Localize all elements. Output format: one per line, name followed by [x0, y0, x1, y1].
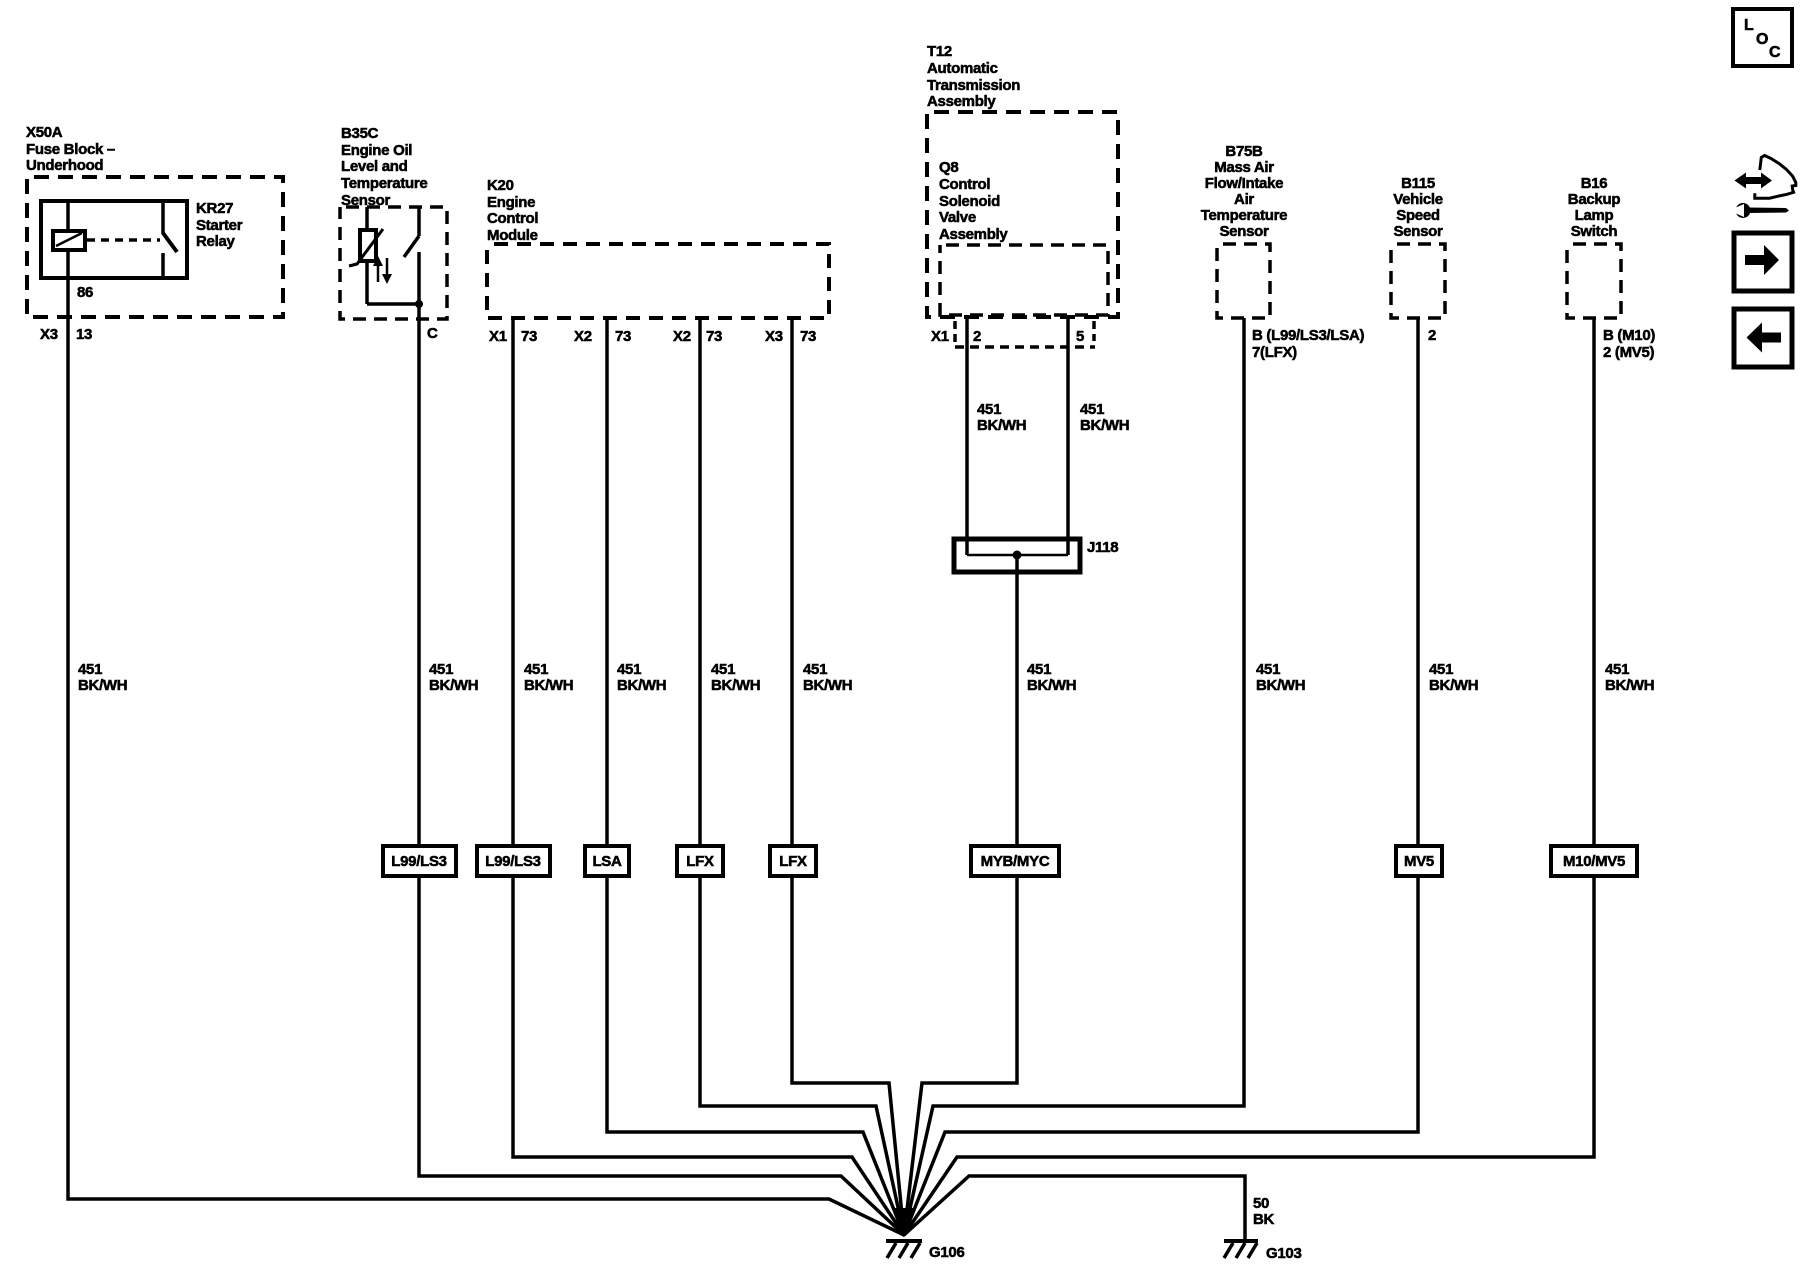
relay KR27 box	[41, 201, 187, 278]
option box MV5	[1396, 846, 1442, 876]
wire K20 X2-73 second 451 BK/WH to G106	[700, 318, 904, 1235]
svg-text:Speed: Speed	[1396, 207, 1440, 224]
svg-text:2: 2	[973, 328, 981, 345]
wire K20 X3-73 451 BK/WH to G106	[792, 318, 904, 1235]
svg-text:Assembly: Assembly	[927, 93, 996, 110]
svg-text:B (L99/LS3/LSA): B (L99/LS3/LSA)	[1252, 327, 1364, 344]
svg-text:B75B: B75B	[1225, 143, 1263, 160]
svg-text:73: 73	[521, 328, 537, 345]
svg-text:X2: X2	[574, 328, 592, 345]
ground G106	[886, 1241, 922, 1258]
pin X2 73	[574, 328, 631, 345]
svg-text:Engine: Engine	[487, 194, 535, 211]
label 451 BK/WH wire K20 X3	[803, 661, 852, 694]
svg-text:451: 451	[1429, 661, 1453, 678]
svg-text:Switch: Switch	[1571, 223, 1618, 240]
svg-text:2 (MV5): 2 (MV5)	[1603, 344, 1655, 361]
label 451 BK/WH wire B35C	[429, 661, 478, 694]
wire 50 BK G106 to G103	[904, 1176, 1245, 1240]
svg-text:X1: X1	[489, 328, 507, 345]
option box LFX second	[770, 846, 816, 876]
svg-text:Control: Control	[939, 176, 990, 193]
connector X50A Fuse Block label	[26, 124, 115, 174]
valve Q8 dashed box	[940, 245, 1108, 315]
relay KR27 coil wire	[66, 201, 70, 278]
svg-text:C: C	[1769, 44, 1781, 61]
icon tools wrench	[1729, 203, 1789, 218]
svg-text:LFX: LFX	[686, 853, 714, 870]
sensor B35C level arrows	[373, 256, 392, 284]
svg-text:451: 451	[1080, 401, 1104, 418]
svg-text:73: 73	[800, 328, 816, 345]
svg-text:BK: BK	[1253, 1211, 1275, 1228]
svg-text:Solenoid: Solenoid	[939, 193, 1000, 210]
svg-text:Control: Control	[487, 210, 538, 227]
relay KR27 switch	[163, 201, 177, 278]
icon LOC box	[1733, 9, 1792, 66]
svg-text:X3: X3	[765, 328, 783, 345]
svg-text:73: 73	[615, 328, 631, 345]
svg-text:G106: G106	[929, 1244, 965, 1261]
svg-text:BK/WH: BK/WH	[1429, 677, 1478, 694]
relay KR27 linkage	[87, 238, 160, 242]
wire J118 out 451 BK/WH to G106	[904, 555, 1017, 1235]
svg-text:Relay: Relay	[196, 233, 235, 250]
svg-text:Valve: Valve	[939, 209, 976, 226]
svg-text:M10/MV5: M10/MV5	[1563, 853, 1625, 870]
svg-text:BK/WH: BK/WH	[803, 677, 852, 694]
svg-text:451: 451	[1027, 661, 1051, 678]
label 451 BK/WH wire K20 X2	[617, 661, 666, 694]
svg-text:451: 451	[524, 661, 548, 678]
sensor B115 label	[1393, 175, 1443, 240]
svg-text:Temperature: Temperature	[1201, 207, 1287, 224]
svg-text:451: 451	[78, 661, 102, 678]
label 451 BK/WH wire K20 X1	[524, 661, 573, 694]
assembly T12 dashed box	[927, 112, 1118, 317]
svg-text:Sensor: Sensor	[1393, 223, 1443, 240]
label 451 BK/WH Q8 pin5	[1080, 401, 1129, 434]
svg-text:B35C: B35C	[341, 125, 379, 142]
svg-text:86: 86	[77, 284, 93, 301]
pin X3 13	[40, 326, 92, 343]
icon arrow right box	[1734, 233, 1792, 291]
label 451 BK/WH wire X50A	[78, 661, 127, 694]
svg-text:MYB/MYC: MYB/MYC	[981, 853, 1050, 870]
svg-text:451: 451	[1256, 661, 1280, 678]
wire B16 451 BK/WH to G106	[904, 318, 1594, 1235]
svg-text:5: 5	[1076, 328, 1084, 345]
svg-text:L99/LS3: L99/LS3	[391, 853, 446, 870]
icon tools double arrow	[1735, 173, 1773, 189]
sensor B75B label	[1201, 143, 1287, 240]
label 451 BK/WH wire J118	[1027, 661, 1076, 694]
switch B16 label	[1568, 175, 1621, 240]
svg-text:B (M10): B (M10)	[1603, 327, 1655, 344]
svg-text:BK/WH: BK/WH	[977, 417, 1026, 434]
assembly T12 label	[927, 43, 1020, 110]
label 451 BK/WH wire B75B	[1256, 661, 1305, 694]
option box MYB/MYC	[971, 846, 1059, 876]
svg-text:MV5: MV5	[1404, 853, 1434, 870]
svg-text:BK/WH: BK/WH	[1080, 417, 1129, 434]
svg-text:LFX: LFX	[779, 853, 807, 870]
node junction B35C pin C	[415, 300, 423, 308]
sensor B35C switch	[404, 207, 419, 257]
svg-text:KR27: KR27	[196, 200, 233, 217]
wire B35C 451 BK/WH to G106	[419, 252, 904, 1235]
label 451 BK/WH wire B16	[1605, 661, 1654, 694]
svg-text:451: 451	[803, 661, 827, 678]
svg-text:K20: K20	[487, 177, 514, 194]
pin X3 73	[765, 328, 816, 345]
svg-text:BK/WH: BK/WH	[524, 677, 573, 694]
svg-text:J118: J118	[1087, 539, 1118, 556]
wire X50A 451 BK/WH to G106	[68, 278, 904, 1235]
option box LFX first	[677, 846, 723, 876]
valve Q8 label	[939, 159, 1008, 243]
label 451 BK/WH Q8 pin2	[977, 401, 1026, 434]
icon tools glove outline	[1755, 156, 1796, 199]
svg-text:Air: Air	[1234, 191, 1254, 208]
svg-text:Sensor: Sensor	[1219, 223, 1269, 240]
relay KR27 coil	[53, 231, 85, 250]
svg-text:451: 451	[429, 661, 453, 678]
label 50 BK	[1253, 1195, 1275, 1228]
wire K20 X1-73 451 BK/WH to G106	[513, 318, 904, 1235]
svg-text:Automatic: Automatic	[927, 60, 998, 77]
svg-text:BK/WH: BK/WH	[429, 677, 478, 694]
svg-text:LSA: LSA	[592, 853, 622, 870]
svg-text:7(LFX): 7(LFX)	[1252, 344, 1297, 361]
option box L99/LS3 wire K20 X1	[477, 846, 550, 876]
svg-text:Underhood: Underhood	[26, 157, 103, 174]
svg-text:451: 451	[711, 661, 735, 678]
sensor B35C dashed box	[340, 207, 447, 319]
svg-text:Flow/Intake: Flow/Intake	[1205, 175, 1283, 192]
svg-text:Mass Air: Mass Air	[1214, 159, 1274, 176]
svg-text:451: 451	[617, 661, 641, 678]
module K20 dashed box	[487, 244, 829, 318]
pin X1 73	[489, 328, 537, 345]
wire K20 X2-73 451 BK/WH to G106	[607, 318, 904, 1235]
sensor B115 dashed box	[1391, 244, 1445, 318]
svg-text:Q8: Q8	[939, 159, 958, 176]
relay KR27 label	[196, 200, 243, 250]
svg-text:Transmission: Transmission	[927, 77, 1020, 94]
svg-text:BK/WH: BK/WH	[711, 677, 760, 694]
svg-text:T12: T12	[927, 43, 952, 60]
option box LSA	[585, 846, 629, 876]
svg-text:Starter: Starter	[196, 217, 243, 234]
svg-text:BK/WH: BK/WH	[78, 677, 127, 694]
svg-text:13: 13	[76, 326, 92, 343]
sensor B35C thermistor	[349, 207, 419, 304]
label 451 BK/WH wire K20 X2 second	[711, 661, 760, 694]
sensor B35C label	[341, 125, 427, 209]
svg-text:L99/LS3: L99/LS3	[485, 853, 540, 870]
wire B75B 451 BK/WH to G106	[904, 318, 1244, 1235]
svg-text:Level and: Level and	[341, 158, 408, 175]
svg-text:B115: B115	[1401, 175, 1435, 192]
svg-text:BK/WH: BK/WH	[1027, 677, 1076, 694]
svg-text:50: 50	[1253, 1195, 1269, 1212]
svg-text:BK/WH: BK/WH	[617, 677, 666, 694]
svg-text:Vehicle: Vehicle	[1393, 191, 1443, 208]
svg-text:C: C	[427, 325, 438, 342]
splice J118	[954, 539, 1080, 572]
svg-text:Assembly: Assembly	[939, 226, 1008, 243]
svg-text:Lamp: Lamp	[1575, 207, 1614, 224]
svg-text:X1: X1	[931, 328, 949, 345]
connector X1 dashed outline	[955, 321, 1095, 347]
svg-text:X2: X2	[673, 328, 691, 345]
svg-text:Backup: Backup	[1568, 191, 1621, 208]
svg-text:BK/WH: BK/WH	[1605, 677, 1654, 694]
pin X2 73 second	[673, 328, 722, 345]
switch B16 dashed box	[1567, 244, 1621, 318]
svg-text:Engine Oil: Engine Oil	[341, 142, 412, 159]
svg-text:X3: X3	[40, 326, 58, 343]
svg-text:451: 451	[1605, 661, 1629, 678]
label 451 BK/WH wire B115	[1429, 661, 1478, 694]
sensor B75B dashed box	[1217, 244, 1270, 318]
icon arrow left box	[1734, 309, 1792, 367]
pin B (M10) 2 (MV5)	[1603, 327, 1655, 361]
svg-text:BK/WH: BK/WH	[1256, 677, 1305, 694]
svg-text:Temperature: Temperature	[341, 175, 427, 192]
svg-text:73: 73	[706, 328, 722, 345]
ground G103	[1224, 1241, 1258, 1258]
svg-text:Module: Module	[487, 227, 538, 244]
svg-text:G103: G103	[1266, 1245, 1302, 1262]
wire Q8 pin2 451 BK/WH	[965, 316, 969, 555]
wire B115 451 BK/WH to G106	[904, 318, 1418, 1235]
option box L99/LS3 wire B35C	[383, 846, 456, 876]
svg-text:L: L	[1744, 17, 1754, 34]
svg-text:2: 2	[1428, 327, 1436, 344]
svg-text:Fuse Block –: Fuse Block –	[26, 141, 115, 158]
pin B (L99/LS3/LSA) 7(LFX)	[1252, 327, 1364, 361]
svg-text:451: 451	[977, 401, 1001, 418]
option box M10/MV5	[1551, 846, 1637, 876]
wire Q8 pin5 451 BK/WH	[1066, 316, 1070, 555]
svg-text:B16: B16	[1581, 175, 1608, 192]
node convergence fan G106	[894, 1208, 914, 1238]
connector X50A dashed box	[27, 177, 283, 317]
module K20 label	[487, 177, 538, 244]
svg-text:X50A: X50A	[26, 124, 63, 141]
svg-text:O: O	[1756, 31, 1768, 48]
